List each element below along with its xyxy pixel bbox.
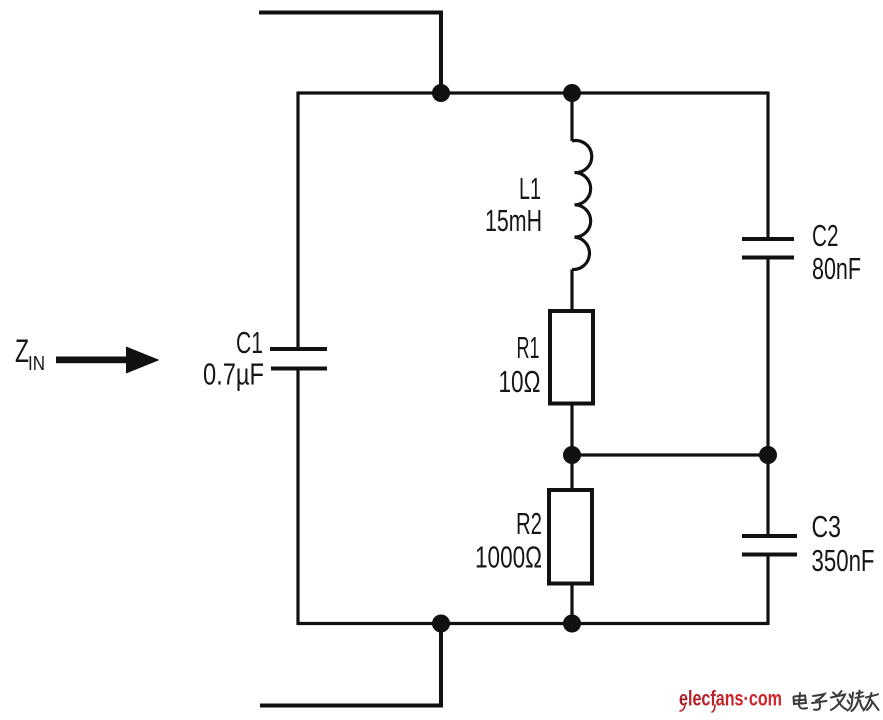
wire left rail lower segment <box>296 371 299 626</box>
capacitor C3 <box>742 536 797 555</box>
svg-text:80nF: 80nF <box>812 251 861 286</box>
wire bottom output stub <box>260 624 441 706</box>
inductor L1 <box>572 141 592 270</box>
svg-text:R2: R2 <box>516 506 542 541</box>
wire node to R2 <box>570 455 573 490</box>
resistor R1 <box>550 311 593 404</box>
svg-text:R1: R1 <box>517 330 540 365</box>
svg-text:IN: IN <box>28 353 45 375</box>
capacitor C2 <box>742 239 794 258</box>
wire inductor to R1 <box>570 270 573 312</box>
svg-text:C1: C1 <box>236 325 263 360</box>
svg-text:1000Ω: 1000Ω <box>475 540 542 575</box>
capacitor C1 <box>270 349 327 369</box>
Z_IN arrow <box>56 347 160 374</box>
wire middle horizontal link <box>572 453 768 456</box>
svg-text:10Ω: 10Ω <box>499 364 541 399</box>
wire top input stub <box>259 13 441 94</box>
wire middle branch top <box>570 93 573 141</box>
wire R1 to middle node <box>570 404 573 456</box>
svg-text:Z: Z <box>15 333 29 369</box>
logo decorative tails <box>680 705 715 712</box>
node bottom stub junction <box>432 615 450 633</box>
svg-text:350nF: 350nF <box>812 543 875 578</box>
svg-text:C3: C3 <box>812 509 842 544</box>
node right junction B <box>759 446 777 464</box>
wire left rail upper segment <box>296 92 299 348</box>
svg-text:15mH: 15mH <box>485 203 542 238</box>
node top middle-branch junction <box>563 84 581 102</box>
svg-text:C2: C2 <box>812 218 839 253</box>
logo chinese characters 电子发烧友 <box>794 691 879 712</box>
node middle junction A <box>563 446 581 464</box>
node top stub junction <box>432 84 450 102</box>
node bottom middle junction <box>563 615 581 633</box>
wire bottom rail <box>298 622 768 625</box>
svg-text:L1: L1 <box>519 171 541 206</box>
svg-text:elecfans·com: elecfans·com <box>679 688 782 711</box>
wire right rail middle segment <box>766 260 769 535</box>
svg-text:0.7µF: 0.7µF <box>203 357 264 392</box>
wire top rail <box>298 91 768 94</box>
wire right rail lower segment <box>766 557 769 626</box>
resistor R2 <box>549 490 592 584</box>
wire R2 to bottom rail <box>570 584 573 624</box>
wire right rail upper segment <box>766 92 769 238</box>
